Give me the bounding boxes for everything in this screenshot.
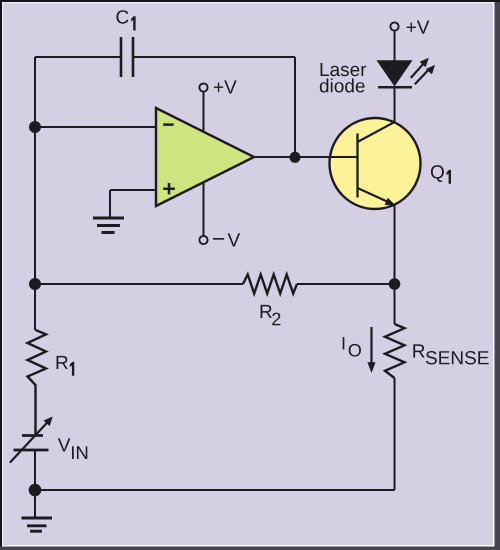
- wire: non-inverting input vertical to ground: [109, 190, 111, 218]
- label -V (op-amp): [213, 238, 224, 240]
- label IO: [343, 337, 345, 349]
- label R2: [261, 305, 272, 318]
- label RSENSE: [413, 344, 424, 357]
- wire: top feedback horizontal left of C1: [35, 56, 121, 58]
- wire: R2 zigzag to right junction: [297, 283, 395, 285]
- laser light arrow 2: [415, 65, 435, 84]
- op-amp -V terminal: [199, 236, 207, 244]
- transistor base bar: [356, 134, 358, 198]
- transistor emitter arrowhead: [385, 198, 396, 206]
- wire: R2 row from rail to zigzag: [35, 283, 243, 285]
- transistor Q1 body: [330, 118, 421, 209]
- ground (bottom left): [22, 518, 53, 531]
- label R1: [57, 356, 68, 369]
- wire: R2 junction down to RSENSE: [394, 284, 396, 324]
- wire: left rail vertical: [34, 57, 36, 330]
- op-amp plus sign: [163, 183, 175, 194]
- wire: op-amp supply vertical +V to -V: [203, 92, 205, 236]
- transistor collector line: [358, 122, 395, 142]
- node: output junction dot: [290, 152, 301, 163]
- wire: laser diode cathode down to transistor collector: [394, 88, 396, 123]
- transistor emitter line: [358, 188, 390, 202]
- label Laser diode: [321, 63, 367, 76]
- variable source VIN top plate: [22, 434, 43, 437]
- node: inverting input junction dot: [29, 121, 41, 133]
- resistor RSENSE: [385, 324, 405, 378]
- label VIN: [58, 438, 71, 451]
- label Q1: [431, 165, 444, 182]
- capacitor C1: [121, 37, 133, 77]
- laser light arrow 1: [411, 58, 429, 78]
- wire: transistor emitter down to R2 junction: [394, 205, 396, 284]
- border frame: [493, 0, 495, 547]
- label +V (laser): [407, 21, 430, 34]
- wire: +V to laser diode anode: [394, 31, 396, 61]
- wire: bottom rail horizontal: [35, 489, 395, 491]
- wire: bottom junction to ground: [34, 490, 36, 518]
- op-amp U1: [156, 108, 254, 206]
- wire: inverting input from rail to op-amp: [35, 126, 156, 128]
- variable source VIN bottom plate: [14, 449, 49, 452]
- label C1: [116, 10, 128, 23]
- resistor R1: [28, 330, 47, 435]
- wire: non-inverting input horizontal: [110, 189, 156, 191]
- laser diode +V terminal: [390, 22, 398, 30]
- laser diode D1: [378, 61, 411, 85]
- node: R2 left junction dot: [29, 278, 41, 290]
- resistor R2: [243, 275, 297, 294]
- op-amp minus sign: [163, 123, 173, 126]
- label +V (op-amp): [214, 80, 237, 93]
- VIN diagonal arrow: [10, 417, 53, 463]
- node: R2 right junction dot: [389, 278, 401, 290]
- wire: vertical from C1 down to output node: [294, 57, 296, 157]
- ground (op-amp non-inverting input): [93, 218, 124, 233]
- VIN wire below: [34, 450, 36, 490]
- wire: RSENSE to bottom rail: [394, 378, 396, 490]
- wire: top feedback horizontal right of C1: [133, 56, 295, 58]
- wire: op-amp output to transistor base: [254, 156, 357, 158]
- current IO arrow: [367, 327, 375, 373]
- op-amp +V terminal: [199, 83, 207, 91]
- node: bottom left junction dot: [29, 484, 42, 497]
